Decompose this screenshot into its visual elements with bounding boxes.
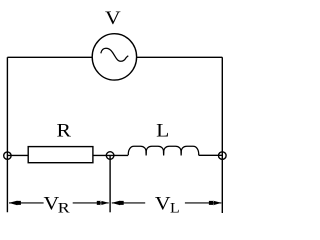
wire top horizontal right	[137, 56, 223, 58]
resistor R body	[28, 147, 93, 163]
wire inductor to right node	[199, 154, 223, 156]
svg-text:L: L	[156, 121, 169, 142]
arrowhead V_L pointing right	[209, 201, 222, 206]
arrowhead V_L pointing left	[112, 201, 124, 206]
wire top horizontal left	[7, 56, 92, 58]
arrowhead V_R pointing left	[9, 201, 21, 206]
ac source V circle	[92, 34, 136, 80]
dimension line V_L right	[185, 202, 221, 204]
node terminal left	[4, 152, 11, 159]
sine wave inside source	[101, 48, 129, 61]
svg-text:L: L	[170, 201, 180, 216]
svg-text:R: R	[58, 201, 70, 216]
dimension line V_L left	[112, 202, 145, 204]
svg-text:V: V	[155, 193, 171, 214]
wire left node to resistor	[7, 154, 28, 156]
svg-text:R: R	[57, 120, 72, 141]
wire middle node to inductor	[110, 154, 128, 156]
wire resistor to middle node	[93, 154, 110, 156]
node terminal right	[219, 152, 227, 160]
arrowhead V_R pointing right	[97, 201, 109, 206]
dimension line V_R right	[73, 202, 109, 204]
svg-text:V: V	[105, 8, 121, 29]
tick middle dimension	[109, 156, 111, 213]
inductor L coil	[128, 146, 198, 155]
wire left vertical (also V_R dimension tick)	[6, 57, 8, 212]
wire right vertical (also V_L dimension tick)	[221, 57, 223, 213]
node terminal middle	[106, 152, 114, 160]
dimension line V_R left	[9, 202, 44, 204]
